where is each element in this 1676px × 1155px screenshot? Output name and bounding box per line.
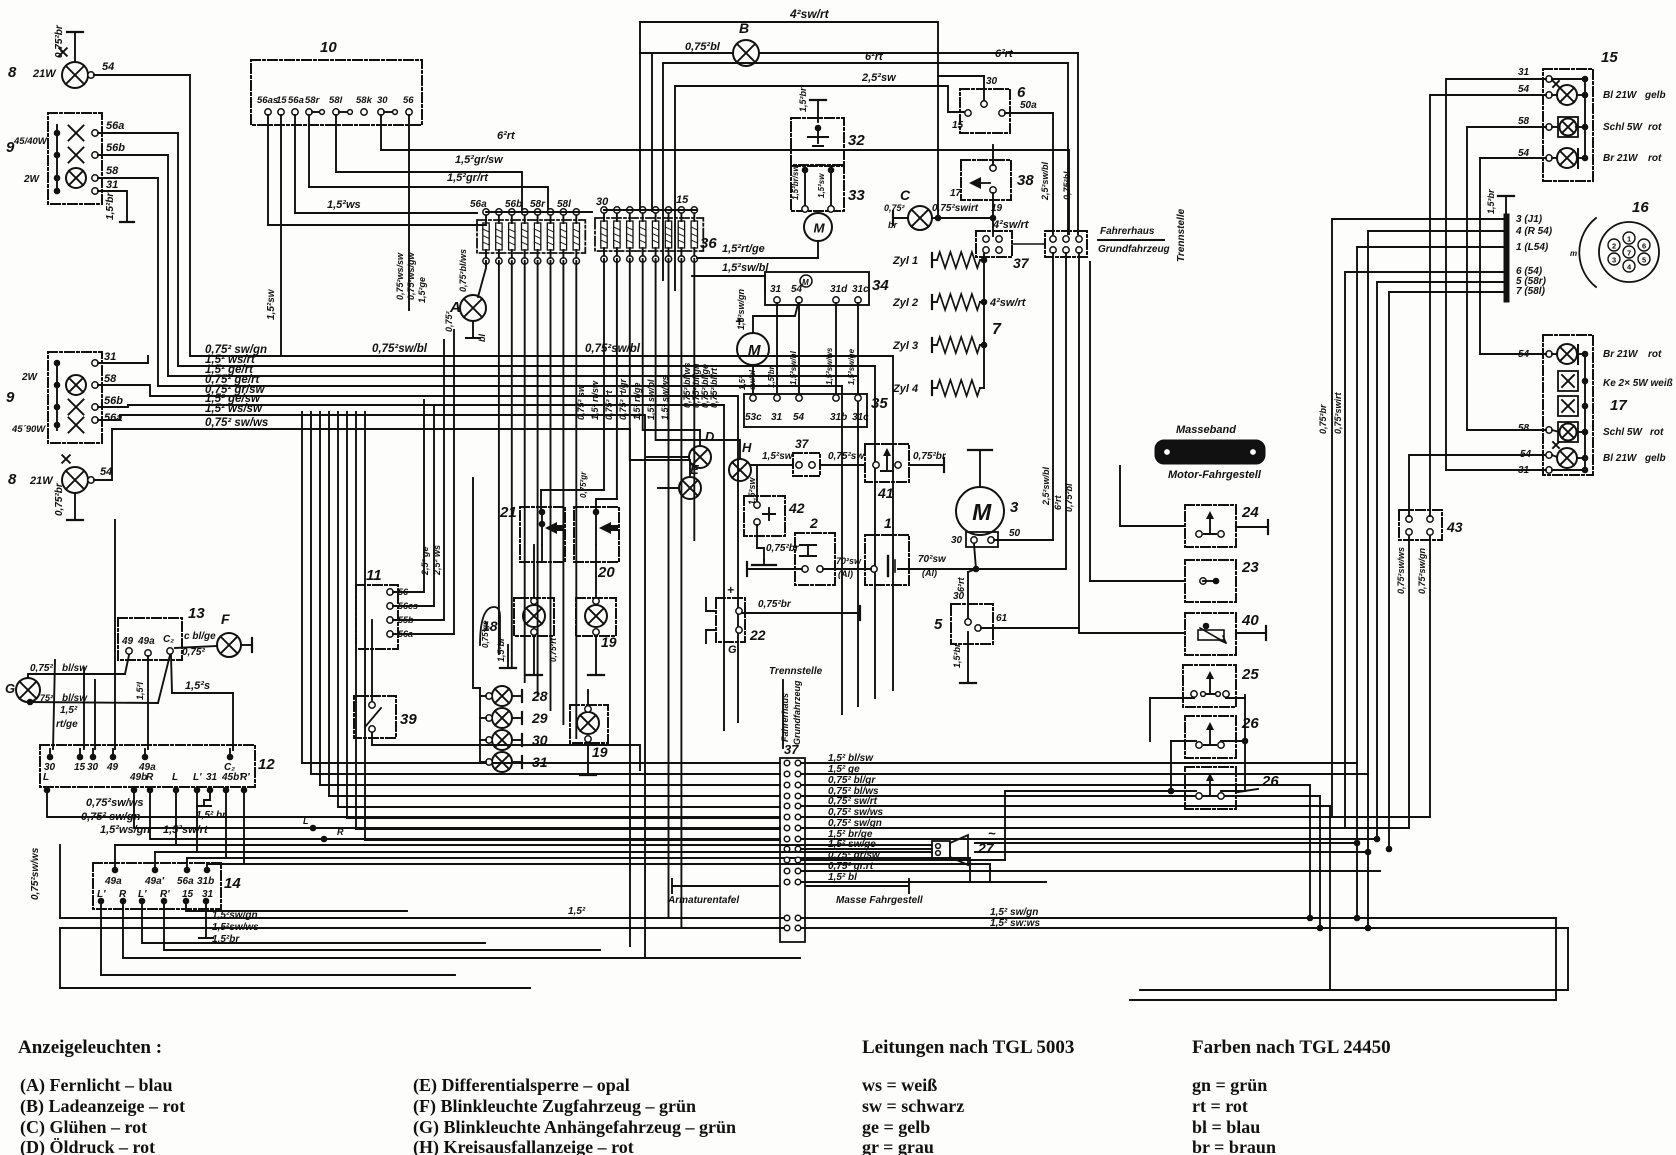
svg-text:56as: 56as	[257, 95, 278, 106]
svg-text:R: R	[146, 772, 154, 783]
svg-text:D: D	[705, 429, 715, 444]
svg-text:Masseband: Masseband	[1176, 424, 1236, 436]
svg-text:Anzeigeleuchten :: Anzeigeleuchten :	[18, 1037, 162, 1058]
svg-text:0,75²rt: 0,75²rt	[549, 638, 558, 662]
svg-text:1,5²br: 1,5²br	[105, 192, 116, 220]
svg-text:br: br	[888, 220, 897, 230]
svg-text:1,5²br: 1,5²br	[1486, 189, 1496, 214]
svg-text:30: 30	[532, 732, 548, 748]
svg-text:2: 2	[1612, 242, 1616, 251]
svg-text:rot: rot	[1648, 349, 1662, 360]
svg-text:6²rt: 6²rt	[497, 130, 516, 142]
svg-text:G: G	[728, 644, 737, 656]
svg-text:Masse Fahrgestell: Masse Fahrgestell	[836, 895, 923, 906]
svg-text:54: 54	[791, 284, 803, 295]
svg-text:0,75²: 0,75²	[182, 647, 205, 658]
svg-text:1,5²gr/sw: 1,5²gr/sw	[455, 154, 504, 166]
svg-text:~: ~	[988, 826, 996, 841]
svg-text:13: 13	[188, 605, 205, 622]
svg-text:1,5²sw: 1,5²sw	[266, 288, 277, 320]
svg-text:70²sw: 70²sw	[918, 554, 947, 565]
svg-text:Fahrerhaus: Fahrerhaus	[1100, 226, 1155, 237]
svg-text:2W: 2W	[23, 174, 41, 185]
svg-text:0,75²bl: 0,75²bl	[1062, 171, 1072, 200]
svg-text:M: M	[802, 278, 809, 287]
svg-text:61: 61	[996, 613, 1008, 624]
svg-text:1,5² rt/sw: 1,5² rt/sw	[590, 380, 600, 420]
svg-text:1,5² sw/bl: 1,5² sw/bl	[646, 379, 656, 420]
svg-text:Zyl 2: Zyl 2	[892, 297, 918, 309]
svg-text:Zyl 3: Zyl 3	[892, 340, 918, 352]
svg-text:Ke 2× 5W weiß: Ke 2× 5W weiß	[1603, 378, 1673, 389]
svg-text:1,5²sw/bl: 1,5²sw/bl	[789, 350, 798, 385]
svg-text:0,75²: 0,75²	[444, 310, 454, 332]
svg-text:(G) Blinkleuchte Anhängefahrz: (G) Blinkleuchte Anhängefahrzeug – grün	[413, 1117, 736, 1138]
svg-text:21: 21	[499, 504, 517, 521]
svg-text:Br 21W: Br 21W	[1603, 349, 1639, 360]
svg-text:0,75² rt/gr: 0,75² rt/gr	[618, 378, 628, 420]
svg-text:sw/bl: sw/bl	[748, 369, 757, 390]
svg-text:56b: 56b	[104, 395, 123, 407]
svg-text:34: 34	[872, 277, 889, 294]
svg-text:49: 49	[121, 636, 134, 647]
svg-text:Fahrerhaus: Fahrerhaus	[780, 693, 790, 742]
svg-text:rot: rot	[1648, 153, 1662, 164]
svg-text:M: M	[748, 342, 761, 359]
svg-text:L': L'	[193, 772, 202, 783]
svg-text:39: 39	[400, 711, 417, 728]
svg-text:1,5² sw/ws: 1,5² sw/ws	[660, 375, 670, 420]
svg-text:50: 50	[1009, 528, 1021, 539]
svg-text:(F) Blinkleuchte Zugfahrzeug: (F) Blinkleuchte Zugfahrzeug – grün	[413, 1096, 696, 1117]
svg-text:2W: 2W	[21, 372, 39, 383]
svg-text:rt/ge: rt/ge	[56, 719, 78, 730]
svg-text:1,5²sw: 1,5²sw	[747, 476, 757, 505]
svg-text:4 (R 54): 4 (R 54)	[1515, 226, 1553, 237]
svg-text:bl: bl	[477, 334, 487, 342]
svg-text:2,5² ge: 2,5² ge	[420, 546, 430, 576]
svg-text:8: 8	[8, 64, 17, 81]
svg-text:49: 49	[106, 762, 119, 773]
svg-text:7: 7	[1627, 249, 1631, 258]
svg-text:1,5²: 1,5²	[738, 376, 747, 390]
svg-text:33: 33	[848, 187, 865, 204]
svg-text:1,5²ge: 1,5²ge	[417, 277, 427, 303]
svg-text:58l: 58l	[557, 199, 571, 210]
svg-text:1,5² sw/gn: 1,5² sw/gn	[990, 907, 1038, 918]
svg-text:31: 31	[104, 351, 116, 363]
svg-text:C: C	[900, 187, 911, 203]
svg-text:(A) Fernlicht – blau: (A) Fernlicht – blau	[20, 1075, 173, 1096]
svg-text:0,75²sw/bl: 0,75²sw/bl	[585, 343, 641, 355]
svg-text:Leitungen nach TGL 5003: Leitungen nach TGL 5003	[862, 1037, 1074, 1058]
svg-text:56b: 56b	[106, 142, 125, 154]
svg-text:0,75²sw/bl: 0,75²sw/bl	[372, 343, 428, 355]
svg-text:31: 31	[106, 179, 118, 191]
svg-text:31: 31	[206, 772, 218, 783]
svg-text:+: +	[727, 583, 734, 597]
svg-text:Armaturentafel: Armaturentafel	[667, 895, 739, 906]
svg-text:31d: 31d	[830, 284, 848, 295]
svg-text:Schl 5W: Schl 5W	[1603, 122, 1643, 133]
svg-text:1,5² br: 1,5² br	[196, 810, 227, 821]
svg-text:54: 54	[100, 466, 112, 478]
svg-text:54: 54	[1520, 449, 1532, 460]
svg-text:49b: 49b	[129, 772, 147, 783]
svg-text:1,5²br: 1,5²br	[952, 643, 962, 668]
svg-text:56a: 56a	[177, 876, 194, 887]
svg-text:25: 25	[1241, 666, 1259, 683]
svg-text:30: 30	[951, 535, 963, 546]
svg-text:0,75²sw/ws: 0,75²sw/ws	[30, 847, 41, 900]
svg-text:0,75²gr: 0,75²gr	[579, 471, 588, 498]
svg-text:6: 6	[1017, 84, 1026, 101]
svg-text:0,75² sw: 0,75² sw	[576, 384, 586, 420]
svg-text:50a: 50a	[1020, 100, 1037, 111]
svg-text:49a: 49a	[137, 636, 155, 647]
svg-text:rot: rot	[1650, 427, 1664, 438]
svg-text:E: E	[690, 462, 699, 477]
svg-text:sw = schwarz: sw = schwarz	[862, 1096, 964, 1116]
svg-text:gn = grün: gn = grün	[1192, 1075, 1267, 1095]
svg-text:45´90W: 45´90W	[11, 424, 46, 435]
svg-text:1,5²sw/ws: 1,5²sw/ws	[825, 347, 834, 385]
svg-text:0,75²: 0,75²	[30, 663, 53, 674]
svg-text:M: M	[814, 220, 826, 235]
svg-text:m: m	[1570, 249, 1577, 258]
svg-text:20: 20	[597, 564, 615, 581]
svg-text:14: 14	[224, 875, 241, 892]
svg-text:0,75²sw: 0,75²sw	[828, 451, 865, 462]
svg-text:0,75²ge: 0,75²ge	[481, 620, 490, 648]
svg-text:6²rt: 6²rt	[956, 576, 966, 592]
svg-text:19: 19	[592, 744, 608, 760]
svg-text:56a: 56a	[106, 120, 124, 132]
svg-text:58: 58	[1518, 423, 1530, 434]
svg-text:54: 54	[1518, 84, 1530, 95]
svg-text:31: 31	[770, 284, 782, 295]
svg-text:1,5²: 1,5²	[568, 906, 586, 917]
svg-text:0,75²ws/sw: 0,75²ws/sw	[395, 252, 405, 300]
svg-text:4²sw/rt: 4²sw/rt	[992, 219, 1030, 231]
svg-text:30: 30	[377, 95, 388, 106]
svg-text:0,75² sw/ws: 0,75² sw/ws	[205, 417, 268, 429]
svg-text:Farben nach TGL 24450: Farben nach TGL 24450	[1192, 1037, 1391, 1058]
svg-text:54: 54	[793, 412, 805, 423]
svg-text:15: 15	[74, 762, 86, 773]
svg-text:L: L	[172, 772, 178, 783]
svg-text:30: 30	[596, 196, 609, 208]
svg-text:Zyl 4: Zyl 4	[892, 383, 918, 395]
svg-text:21W: 21W	[29, 475, 54, 487]
svg-text:C₂: C₂	[163, 634, 174, 645]
svg-text:49a': 49a'	[144, 876, 165, 887]
svg-text:0,75²bl: 0,75²bl	[1064, 483, 1074, 512]
svg-text:49a: 49a	[104, 876, 122, 887]
svg-text:1 (L54): 1 (L54)	[1516, 242, 1549, 253]
svg-text:7: 7	[992, 321, 1002, 338]
svg-text:0,75²br: 0,75²br	[54, 482, 65, 516]
svg-text:3: 3	[1612, 256, 1616, 265]
svg-text:0,75²swirt: 0,75²swirt	[932, 203, 979, 214]
svg-text:1,5²: 1,5²	[60, 705, 78, 716]
svg-text:1,5²ws: 1,5²ws	[327, 199, 361, 211]
svg-text:31: 31	[771, 412, 783, 423]
svg-text:rt = rot: rt = rot	[1192, 1096, 1248, 1116]
svg-text:F: F	[221, 611, 230, 627]
svg-text:7 (58l): 7 (58l)	[1516, 286, 1546, 297]
svg-text:3 (J1): 3 (J1)	[1516, 214, 1543, 225]
svg-text:0,75²swirt: 0,75²swirt	[1333, 391, 1343, 434]
svg-text:4²sw/rt: 4²sw/rt	[989, 297, 1027, 309]
svg-text:30: 30	[87, 762, 99, 773]
svg-text:gelb: gelb	[1644, 90, 1666, 101]
svg-text:56b: 56b	[505, 199, 522, 210]
svg-text:gelb: gelb	[1644, 453, 1666, 464]
svg-text:1,5²sw/bl: 1,5²sw/bl	[722, 262, 769, 274]
svg-text:9: 9	[6, 389, 15, 406]
svg-text:58l: 58l	[329, 95, 343, 106]
svg-text:(D) Öldruck – rot: (D) Öldruck – rot	[20, 1137, 155, 1155]
svg-text:5: 5	[1642, 256, 1646, 265]
svg-text:2,5²sw/bl: 2,5²sw/bl	[1041, 466, 1051, 506]
svg-text:1,5²rt/ge: 1,5²rt/ge	[722, 243, 765, 255]
svg-text:42: 42	[788, 500, 805, 516]
svg-text:0,75² bl/rt: 0,75² bl/rt	[709, 367, 719, 408]
svg-text:(E) Differentialsperre – opal: (E) Differentialsperre – opal	[413, 1075, 630, 1096]
svg-text:58r: 58r	[305, 95, 321, 106]
svg-text:c bl/ge: c bl/ge	[184, 631, 216, 642]
svg-text:Grundfahrzeug: Grundfahrzeug	[1098, 244, 1170, 255]
svg-text:1,5²s: 1,5²s	[185, 680, 210, 692]
svg-text:11: 11	[366, 567, 382, 584]
svg-text:2,5²sw: 2,5²sw	[861, 72, 897, 84]
svg-text:rot: rot	[1648, 122, 1662, 133]
svg-text:1,5²sw/rt: 1,5²sw/rt	[163, 824, 209, 836]
svg-text:22: 22	[749, 627, 766, 643]
svg-text:24: 24	[1241, 504, 1259, 521]
svg-text:Grundfahrzeug: Grundfahrzeug	[792, 680, 802, 745]
svg-text:56: 56	[403, 95, 414, 106]
svg-text:Bl 21W: Bl 21W	[1603, 453, 1638, 464]
svg-text:6: 6	[1642, 242, 1646, 251]
svg-text:1,5²br: 1,5²br	[496, 637, 506, 662]
svg-text:15: 15	[276, 95, 287, 106]
svg-text:(H) Kreisausfallanzeige – rot: (H) Kreisausfallanzeige – rot	[413, 1137, 634, 1155]
svg-text:0,75²: 0,75²	[884, 203, 906, 213]
svg-text:56a: 56a	[470, 199, 487, 210]
svg-text:br = braun: br = braun	[1192, 1137, 1276, 1155]
svg-text:21W: 21W	[32, 68, 57, 80]
svg-text:1,5²sw/gn: 1,5²sw/gn	[736, 288, 746, 330]
svg-text:36: 36	[700, 235, 717, 252]
svg-text:31c: 31c	[852, 412, 869, 423]
svg-text:1: 1	[1627, 235, 1631, 244]
svg-text:1,5²gr/rt: 1,5²gr/rt	[447, 172, 489, 184]
svg-text:0,75²bl/ws: 0,75²bl/ws	[458, 249, 468, 292]
svg-text:70²sw: 70²sw	[836, 556, 862, 566]
svg-text:1: 1	[884, 515, 892, 531]
svg-text:R': R'	[240, 772, 250, 783]
svg-text:Trennstelle: Trennstelle	[1176, 208, 1187, 262]
svg-text:6²rt: 6²rt	[865, 51, 884, 63]
svg-text:1,5²br: 1,5²br	[767, 365, 776, 388]
svg-text:26: 26	[1261, 773, 1279, 790]
svg-text:1,5² ws/sw: 1,5² ws/sw	[205, 403, 263, 415]
svg-text:3: 3	[1010, 499, 1019, 516]
svg-text:ws = weiß: ws = weiß	[862, 1075, 937, 1095]
svg-text:30: 30	[986, 76, 998, 87]
svg-text:0,75²br: 0,75²br	[1318, 404, 1328, 434]
svg-text:43: 43	[1446, 519, 1463, 535]
svg-text:15: 15	[1601, 49, 1618, 66]
svg-text:31: 31	[532, 754, 548, 770]
svg-text:Schl 5W: Schl 5W	[1603, 427, 1643, 438]
svg-text:1,5²br: 1,5²br	[798, 87, 808, 112]
svg-text:28: 28	[531, 688, 548, 704]
svg-text:23: 23	[1241, 559, 1259, 576]
svg-text:17: 17	[1610, 397, 1627, 414]
svg-text:1,5² rt/ge: 1,5² rt/ge	[632, 382, 642, 420]
svg-text:53c: 53c	[745, 412, 762, 423]
svg-text:10: 10	[320, 39, 337, 56]
svg-text:(C) Glühen – rot: (C) Glühen – rot	[20, 1117, 147, 1138]
svg-text:58: 58	[106, 165, 119, 177]
svg-text:G: G	[5, 681, 15, 696]
svg-text:58k: 58k	[356, 95, 373, 106]
svg-text:26: 26	[1241, 715, 1259, 732]
svg-text:37: 37	[1013, 255, 1030, 271]
svg-text:(B) Ladeanzeige – rot: (B) Ladeanzeige – rot	[20, 1096, 185, 1117]
svg-text:31: 31	[1518, 67, 1530, 78]
svg-text:58: 58	[1518, 116, 1530, 127]
svg-text:6²rt: 6²rt	[995, 48, 1014, 60]
svg-text:2: 2	[809, 515, 818, 531]
svg-text:8: 8	[8, 471, 17, 488]
svg-text:M: M	[972, 499, 992, 525]
svg-text:1,5²sw: 1,5²sw	[817, 173, 826, 198]
svg-text:37: 37	[795, 437, 810, 451]
svg-text:(Al): (Al)	[838, 569, 853, 579]
svg-text:bl = blau: bl = blau	[1192, 1117, 1260, 1137]
svg-text:17: 17	[950, 188, 962, 199]
svg-text:37: 37	[784, 742, 799, 757]
svg-text:45/40W: 45/40W	[13, 136, 48, 147]
svg-text:6²rt: 6²rt	[1053, 494, 1063, 510]
svg-text:2,5²sw/bl: 2,5²sw/bl	[1040, 161, 1050, 201]
svg-text:4²sw/rt: 4²sw/rt	[789, 7, 830, 21]
svg-text:31b: 31b	[197, 876, 214, 887]
svg-text:12: 12	[258, 756, 275, 773]
svg-text:31c: 31c	[852, 284, 869, 295]
svg-text:1,5²sw: 1,5²sw	[762, 451, 794, 462]
svg-text:41: 41	[877, 485, 894, 501]
svg-text:L: L	[303, 816, 309, 826]
svg-text:Motor-Fahrgestell: Motor-Fahrgestell	[1168, 469, 1262, 481]
svg-text:40: 40	[1241, 612, 1259, 629]
svg-text:0,75²sw/gn: 0,75²sw/gn	[1417, 547, 1427, 594]
svg-text:31b: 31b	[830, 412, 847, 423]
svg-text:H: H	[742, 440, 752, 455]
svg-text:0,75²ws/gw: 0,75²ws/gw	[406, 251, 416, 300]
svg-text:Zyl 1: Zyl 1	[892, 255, 918, 267]
svg-text:5: 5	[934, 616, 943, 633]
svg-text:0,75²bl: 0,75²bl	[685, 41, 721, 53]
svg-text:35: 35	[871, 395, 888, 412]
svg-text:38: 38	[1017, 172, 1034, 189]
svg-text:15: 15	[952, 120, 964, 131]
svg-text:16: 16	[1632, 199, 1649, 216]
svg-text:58: 58	[104, 373, 117, 385]
svg-text:Bl 21W: Bl 21W	[1603, 90, 1638, 101]
svg-text:0,75²br: 0,75²br	[913, 451, 947, 462]
svg-text:1,5²br/sw: 1,5²br/sw	[791, 165, 800, 200]
svg-text:L: L	[43, 772, 49, 783]
svg-text:58r: 58r	[530, 199, 546, 210]
svg-text:1,5²sw/ge: 1,5²sw/ge	[847, 348, 856, 385]
svg-text:32: 32	[848, 132, 865, 149]
svg-text:29: 29	[531, 710, 548, 726]
svg-text:0,75²br: 0,75²br	[758, 599, 792, 610]
svg-text:gr = grau: gr = grau	[862, 1137, 934, 1155]
svg-text:0,75²sw/ws: 0,75²sw/ws	[1396, 547, 1406, 594]
svg-text:Br 21W: Br 21W	[1603, 153, 1639, 164]
svg-text:56a: 56a	[288, 95, 304, 106]
svg-text:54: 54	[102, 61, 114, 73]
svg-text:ge = gelb: ge = gelb	[862, 1117, 930, 1137]
svg-text:1,5²ws/gn: 1,5²ws/gn	[100, 824, 150, 836]
svg-text:19: 19	[601, 634, 617, 650]
svg-text:1,5²l: 1,5²l	[135, 681, 145, 700]
svg-text:0,75² rt: 0,75² rt	[604, 389, 614, 420]
svg-text:Trennstelle: Trennstelle	[769, 666, 823, 677]
svg-text:15: 15	[676, 194, 689, 206]
